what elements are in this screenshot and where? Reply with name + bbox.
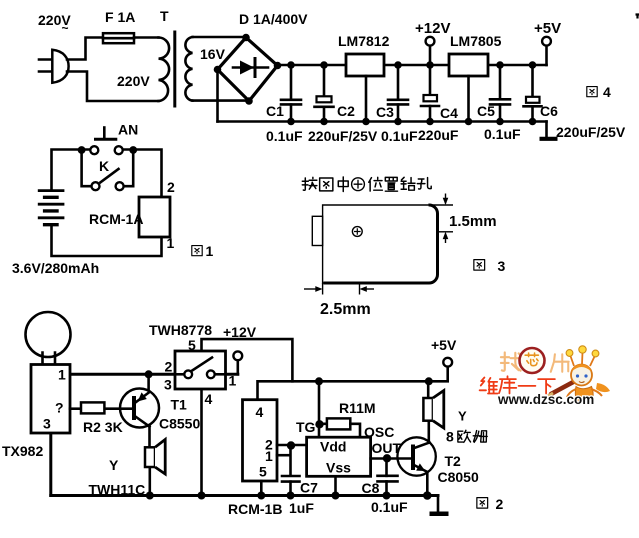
bridge rectifier D 1A/400V diamond (218, 38, 278, 102)
T1 collector diagonal (134, 416, 150, 427)
T1 base bar (132, 396, 136, 420)
terminal +5V fig2 (443, 358, 452, 367)
svg-text:C4: C4 (440, 105, 458, 121)
svg-text:220uF/25V: 220uF/25V (556, 124, 626, 140)
label 8 ohm (Chinese) (446, 429, 487, 445)
node bridge AC2 (245, 97, 253, 105)
svg-text:F 1A: F 1A (105, 9, 135, 25)
node speaker2 rail junction (425, 377, 433, 385)
svg-text:1: 1 (167, 235, 175, 251)
svg-text:Vss: Vss (326, 460, 351, 476)
capacitor C7 1uF (282, 476, 300, 496)
capacitor C2 220uF/25V electrolytic (315, 65, 334, 122)
wire R1 right to OSC pin (350, 424, 360, 438)
node T2 emitter ground (423, 491, 432, 500)
node bridge minus (214, 66, 222, 74)
wire RCM-1B pin2 to IC2 (277, 444, 307, 447)
svg-text:8: 8 (446, 429, 454, 445)
wire bridge negative down to ground rail (216, 70, 219, 122)
TWH8778 contact left (184, 370, 192, 378)
SECTION FIG1 (12, 122, 214, 277)
module RCM-1A (139, 197, 170, 237)
wire R2 to T1 base (104, 407, 134, 410)
node C2 bottom (320, 118, 328, 126)
switch IC TWH8778 (175, 351, 226, 389)
node C1 top (287, 61, 295, 69)
dim arrow up 1.5mm (443, 232, 449, 243)
svg-text:C5: C5 (477, 103, 495, 119)
svg-text:4: 4 (205, 391, 213, 407)
node 7812 gnd (362, 118, 370, 126)
svg-text:RCM-1A: RCM-1A (89, 211, 143, 227)
capacitor C6 220uF/25V electrolytic (524, 65, 542, 122)
svg-text:Y: Y (458, 409, 467, 424)
speaker Y2 frame (423, 391, 443, 429)
svg-text:~: ~ (62, 21, 69, 35)
capacitor C8 0.1uF (378, 459, 398, 496)
ground fig2 (430, 496, 449, 514)
node C7 ground (287, 492, 295, 500)
svg-text:0.1uF: 0.1uF (484, 126, 521, 142)
AC plug P1 (39, 50, 69, 83)
svg-text:1: 1 (265, 448, 273, 464)
transistor T1 C8550 body (120, 389, 159, 428)
svg-text:T2: T2 (445, 453, 462, 469)
extension line top (433, 204, 453, 206)
node pin4 ground (198, 492, 206, 500)
resistor R1 1M (327, 418, 350, 429)
node speaker1 ground (146, 492, 154, 500)
ground fig4 (540, 122, 558, 139)
svg-text:1: 1 (206, 243, 214, 259)
watermark chip circle (520, 348, 545, 373)
watermark faded text pian (551, 354, 569, 371)
label figure 4 (587, 84, 611, 100)
microphone neck (43, 353, 56, 365)
TWH8778 internal stub right (214, 373, 225, 376)
node TG rail junction (315, 377, 323, 385)
wire TWH8778 pin5 to +12V run (202, 339, 293, 381)
drill hole mark (352, 227, 362, 237)
node pin2 C7 junction (287, 441, 295, 449)
SECTION FIG4 (38, 8, 626, 144)
node bridge plus (274, 62, 282, 70)
SECTION FIG2 (2, 312, 504, 517)
wire battery minus to RCM-1A pin1 (52, 226, 162, 257)
SECTION FIG3 (302, 177, 505, 318)
template outline (323, 205, 438, 283)
node C4 bottom (426, 118, 434, 126)
svg-text:220V: 220V (117, 73, 150, 89)
svg-text:LM7805: LM7805 (450, 33, 502, 49)
svg-text:0.1uF: 0.1uF (381, 128, 418, 144)
fuse F 1A (103, 33, 134, 43)
wire plug to primary bottom (67, 72, 159, 102)
svg-text:T1: T1 (171, 397, 188, 413)
node C8 ground (383, 492, 391, 500)
node C5 bottom (496, 118, 504, 126)
node T1 emitter junction (145, 370, 153, 378)
svg-text:+5V: +5V (534, 20, 561, 37)
svg-text:3.6V/280mAh: 3.6V/280mAh (12, 260, 99, 276)
node +12V rail (426, 61, 434, 69)
svg-text:C8050: C8050 (438, 469, 479, 485)
wire right node down to K contact (124, 150, 134, 187)
node bridge AC1 (242, 34, 250, 42)
label figure 1 (192, 243, 214, 259)
node C1 bottom (287, 118, 295, 126)
svg-text:1: 1 (58, 367, 66, 383)
node battery to contacts junction (78, 146, 86, 154)
node contacts to RCM junction (129, 146, 137, 154)
caption drill note (Chinese) (302, 177, 431, 192)
wire battery plus to switch node (52, 150, 91, 190)
svg-text:1: 1 (229, 373, 237, 389)
transistor T2 C8050 body (397, 437, 435, 475)
contact K left (92, 182, 100, 190)
svg-text:TWH11C: TWH11C (89, 482, 146, 498)
terminal +12V (426, 37, 435, 65)
extension line hole level (439, 231, 453, 233)
svg-text:T: T (160, 8, 169, 24)
svg-text:C8550: C8550 (159, 416, 200, 432)
svg-text:0.1uF: 0.1uF (371, 499, 408, 515)
speaker Y1 TWH11C frame (145, 440, 165, 475)
contact K right (116, 182, 124, 190)
svg-text:+5V: +5V (431, 337, 457, 353)
pushbutton AN actuator bar (94, 128, 117, 140)
node C6 bottom (529, 118, 537, 126)
node C2 top (320, 61, 328, 69)
edge artifact top right (636, 15, 639, 19)
TWH8778 internal stub left (175, 373, 184, 376)
svg-text:R2 3K: R2 3K (83, 419, 123, 435)
wire bottom ground rail (218, 120, 547, 123)
wire LM7805 ground pin (467, 76, 470, 122)
svg-text:4: 4 (256, 404, 264, 420)
svg-text:C1: C1 (266, 103, 284, 119)
label figure 2 (477, 496, 504, 512)
node C6 top (529, 61, 537, 69)
wire TG drop to IC2 Vdd (318, 381, 321, 438)
capacitor C3 0.1uF (388, 65, 408, 122)
node C5 top (496, 61, 504, 69)
svg-text:C8: C8 (362, 480, 380, 496)
svg-text:220uF: 220uF (418, 127, 459, 143)
capacitor C5 0.1uF (490, 65, 510, 122)
svg-text:1.5mm: 1.5mm (449, 213, 497, 230)
template right edge thick (324, 205, 438, 283)
wire RCM-1B pin5 down (260, 481, 263, 496)
svg-text:RCM-1B: RCM-1B (228, 501, 282, 517)
wire pin2 node down to C7 (289, 446, 292, 476)
svg-text:LM7812: LM7812 (338, 33, 390, 49)
T2 collector diagonal (413, 443, 430, 449)
dim arrow down 1.5mm (443, 194, 449, 206)
wire bottom ground rail fig2 (51, 494, 438, 497)
capacitor C4 220uF electrolytic (421, 65, 439, 122)
wire switch right node to RCM-1A pin2 (123, 150, 162, 198)
svg-text:?: ? (55, 400, 64, 416)
svg-text:C6: C6 (540, 103, 558, 119)
dim arrow left 2.5mm (360, 286, 375, 292)
contact AN left (90, 146, 98, 154)
svg-text:0.1uF: 0.1uF (266, 128, 303, 144)
svg-text:Y: Y (109, 457, 119, 473)
wire R1 left to TG node (319, 422, 327, 425)
wire T2 emitter down to rail (426, 472, 429, 496)
node C3 bottom (394, 118, 402, 126)
regulator U2 LM7805 (449, 54, 488, 76)
svg-text:5: 5 (259, 464, 267, 480)
svg-text:AN: AN (118, 122, 138, 138)
capacitor C1 0.1uF (281, 65, 301, 122)
terminal +5V (542, 37, 551, 65)
wire plug to fuse (67, 38, 103, 60)
resistor R2 3K (81, 402, 104, 413)
wire TX982 pin? to R2 (70, 407, 81, 410)
svg-text:TWH8778: TWH8778 (149, 322, 212, 338)
transformer secondary winding 16V (185, 37, 192, 101)
svg-text:K: K (99, 158, 109, 174)
extension line left edge down (322, 283, 324, 295)
T2 emitter diagonal with arrow (413, 463, 427, 471)
label 220V~ mains (38, 12, 71, 35)
microphone MIC head (26, 312, 71, 357)
diode symbol inside bridge (233, 59, 268, 77)
T2 base bar (411, 445, 415, 471)
svg-text:D 1A/400V: D 1A/400V (239, 11, 308, 27)
node pin5 ground (257, 492, 265, 500)
terminal +12V fig2 (233, 351, 242, 360)
module TX982 (31, 365, 70, 434)
svg-text:www.dzsc.com: www.dzsc.com (497, 392, 594, 407)
dim arrow right 2.5mm (304, 286, 323, 292)
wire secondary bottom to bridge AC2 (193, 99, 250, 102)
module RCM-1B (243, 400, 278, 481)
svg-text:3: 3 (498, 258, 506, 274)
svg-text:2.5mm: 2.5mm (320, 301, 371, 318)
svg-text:2: 2 (165, 359, 173, 375)
label figure 3 (474, 258, 506, 274)
wire speaker Y2 top (427, 381, 430, 398)
node 7805 gnd (465, 118, 473, 126)
svg-text:Vdd: Vdd (320, 439, 346, 455)
wire speaker Y1 to rail (149, 467, 152, 496)
T1 emitter diagonal with arrow (134, 392, 149, 403)
svg-text:1uF: 1uF (289, 500, 314, 516)
TWH8778 contact right (207, 370, 215, 378)
wire RCM-1B pin1 to C7 node (277, 454, 290, 457)
melody IC U3 Vdd/Vss box (307, 437, 371, 476)
wire T2 collector up to speaker (427, 421, 430, 443)
svg-text:4: 4 (603, 84, 611, 100)
wire fuse to transformer primary (134, 36, 159, 39)
switch K lever (101, 169, 119, 182)
watermark faded text zhao (501, 352, 521, 370)
svg-text:2: 2 (496, 496, 504, 512)
transformer T primary winding (159, 38, 170, 102)
wire TX982 pin3 down (49, 433, 52, 496)
svg-text:TX982: TX982 (2, 443, 43, 459)
watermark mascot (566, 346, 610, 403)
watermark pen (548, 380, 577, 396)
svg-text:2: 2 (167, 179, 175, 195)
TWH8778 switch lever (192, 358, 213, 372)
SECTION WATERMARK (480, 346, 610, 407)
wire switched rail fig2 (258, 367, 448, 400)
transformer core (173, 32, 176, 106)
regulator U1 LM7812 (346, 54, 384, 76)
wire secondary top to bridge AC1 (193, 36, 247, 39)
svg-text:C3: C3 (376, 104, 394, 120)
wire Vss pin down (334, 476, 337, 495)
wire left node down to K contact (82, 150, 92, 187)
svg-text:5: 5 (188, 337, 196, 353)
wire TWH8778 pin4 down (200, 389, 203, 496)
svg-text:3: 3 (43, 416, 51, 432)
svg-text:3: 3 (164, 377, 172, 393)
wire T1 emitter up (147, 374, 150, 392)
svg-text:+12V: +12V (223, 324, 257, 340)
svg-text:R11M: R11M (339, 400, 376, 416)
wire top positive rail (278, 64, 547, 67)
svg-text:220uF/25V: 220uF/25V (308, 128, 378, 144)
svg-text:+12V: +12V (415, 20, 450, 37)
wire T1 collector to speaker (148, 427, 151, 448)
wire LM7812 ground pin (365, 76, 368, 122)
contact AN right (115, 146, 123, 154)
wire OUT to T2 base (371, 457, 413, 460)
node Vss ground (332, 492, 340, 500)
node TG (315, 420, 323, 428)
extension tick hole x (359, 283, 361, 295)
wire TX982 pin1 row to TWH8778 (70, 373, 238, 376)
tab on left (312, 216, 322, 245)
node OUT C8 junction (383, 454, 391, 462)
svg-text:C2: C2 (337, 103, 355, 119)
watermark weikuyixia red text (480, 376, 555, 393)
svg-text:TG: TG (296, 419, 316, 435)
battery BT1 3.6V (38, 191, 65, 225)
svg-text:C7: C7 (300, 480, 318, 496)
node C3 top (394, 61, 402, 69)
wire +12V terminal riser fig2 (237, 360, 240, 374)
svg-text:16V: 16V (200, 46, 226, 62)
